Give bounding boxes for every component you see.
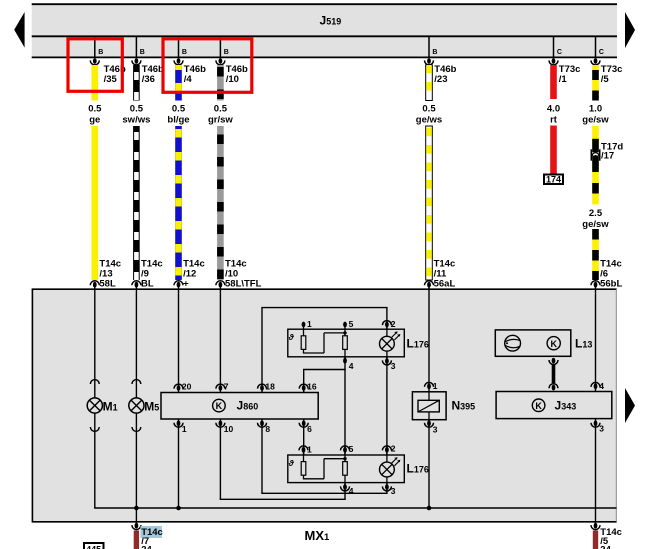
svg-text:8: 8 xyxy=(265,424,270,434)
svg-text:K: K xyxy=(216,401,223,411)
svg-text:24: 24 xyxy=(600,545,611,549)
svg-text:10: 10 xyxy=(224,424,234,434)
wire to J860 pin 20 xyxy=(178,285,180,393)
svg-text:58L: 58L xyxy=(99,279,116,290)
svg-text:4: 4 xyxy=(349,361,354,371)
svg-text:ϑ: ϑ xyxy=(288,458,295,468)
svg-text:3: 3 xyxy=(599,423,604,433)
J860 pin 7 xyxy=(216,382,229,392)
L176 upper pin 2 xyxy=(382,319,395,329)
wire L176 upper pin 3 to L176 lower pin 2 xyxy=(386,357,388,455)
svg-text:B: B xyxy=(140,49,145,56)
wire label 2.5 ge/sw xyxy=(582,208,609,230)
svg-text:bl/ge: bl/ge xyxy=(167,115,189,126)
connector T46b/10 xyxy=(216,58,248,85)
wire label 1.0 ge/sw xyxy=(582,104,609,126)
connector T14c/13 58L xyxy=(90,259,121,290)
wire to J343 pin 4 xyxy=(595,285,597,392)
svg-text:20: 20 xyxy=(182,382,192,392)
L176 upper pin 3 xyxy=(382,358,395,371)
svg-text:L176: L176 xyxy=(407,337,429,351)
svg-text:16: 16 xyxy=(307,382,317,392)
svg-text:7: 7 xyxy=(224,382,229,392)
svg-text:24: 24 xyxy=(141,545,152,549)
J860 pin 16 xyxy=(299,382,317,392)
svg-text:J860: J860 xyxy=(237,399,259,413)
lamp M1 xyxy=(87,380,117,432)
svg-text:gr/sw: gr/sw xyxy=(208,115,233,126)
wire J860 pin 1 to ground bus xyxy=(178,419,180,508)
wire J860 pin 6 to L176 lower pin 1 xyxy=(303,419,305,455)
wire M5 branch to exit T14c/7 xyxy=(135,285,137,524)
svg-text:0.5: 0.5 xyxy=(172,104,186,115)
headlight unit box MX1 xyxy=(32,289,617,522)
markup red rectangle 1 xyxy=(68,39,122,92)
wire 0.5 gr/sw from J519 T46b/10 to MX1 T14c/10 xyxy=(217,65,224,280)
svg-text:/4: /4 xyxy=(184,74,193,85)
svg-text:L176: L176 xyxy=(407,462,429,476)
wire J343 pin 3 to exit T14c/5 xyxy=(595,419,597,524)
connector T73c/1 xyxy=(549,58,580,85)
junction dot N395 bus xyxy=(427,506,432,511)
control unit J343 xyxy=(496,392,612,419)
connector T46b/4 xyxy=(174,58,206,85)
svg-text:2: 2 xyxy=(391,443,396,453)
markup red rectangle 2 xyxy=(163,39,252,93)
wire label 4.0 rt xyxy=(547,104,560,126)
N395 pin 1 xyxy=(425,381,438,391)
J519 pin stub B at x=136.4 xyxy=(136,36,144,57)
connector T14c/10 58L\TFL xyxy=(216,259,262,290)
svg-text:4.0: 4.0 xyxy=(547,104,560,115)
svg-text:58L\TFL: 58L\TFL xyxy=(225,279,262,290)
wire to J860 pin 7 xyxy=(219,285,221,393)
J860 pin 18 xyxy=(258,382,276,392)
svg-text:0.5: 0.5 xyxy=(130,104,144,115)
wire 0.5 bl/ge from J519 T46b/4 to MX1 T14c/12 xyxy=(175,65,182,280)
svg-text:sw/ws: sw/ws xyxy=(122,115,150,126)
plus connection 174 box xyxy=(544,174,563,184)
svg-text:K: K xyxy=(535,401,542,411)
svg-text:C: C xyxy=(599,49,604,56)
wire L176 upper pin 4 to L176 lower pin 5 xyxy=(344,357,346,455)
svg-text:/23: /23 xyxy=(434,74,447,85)
svg-text:ge/sw: ge/sw xyxy=(582,115,609,126)
L176 lower pin 4 xyxy=(341,484,354,496)
exit connector T14c/7 (highlighted) xyxy=(132,523,163,549)
svg-text:1: 1 xyxy=(307,444,312,454)
svg-text:18: 18 xyxy=(265,382,275,392)
svg-text:ge/ws: ge/ws xyxy=(416,115,442,126)
connector T46b/23 xyxy=(425,58,457,85)
wire 1.0/2.5 ge/sw from J519 T73c/5 through T17d/17 to MX1 T14c/6 xyxy=(592,65,599,280)
connector T46b/35 xyxy=(90,58,126,85)
L176 upper pin 4 xyxy=(343,358,354,371)
svg-text:4: 4 xyxy=(349,486,354,496)
svg-text:1: 1 xyxy=(182,424,187,434)
wire J860 pin 8 to L176 lower pin 3 xyxy=(261,419,387,493)
daytime running light L176 upper xyxy=(288,325,429,361)
svg-text:56aL: 56aL xyxy=(434,279,456,290)
svg-text:0.5: 0.5 xyxy=(214,104,228,115)
connector T46b/36 xyxy=(132,58,164,85)
svg-text:B: B xyxy=(224,49,229,56)
wire 0.5 ge from J519 T46b/35 to MX1 T14c/13 xyxy=(92,65,99,280)
J343 pin 4 xyxy=(591,381,604,391)
svg-text:174: 174 xyxy=(546,174,561,184)
L176 upper pin 5 xyxy=(343,319,354,329)
lamp M5 xyxy=(129,380,159,432)
svg-text:C: C xyxy=(557,49,562,56)
svg-text:/35: /35 xyxy=(104,74,118,85)
svg-text:3: 3 xyxy=(433,424,438,434)
svg-text:1: 1 xyxy=(433,381,438,391)
svg-text:1: 1 xyxy=(307,319,312,329)
ground bus inside MX1 xyxy=(94,507,616,509)
connector T14c/11 56aL xyxy=(425,259,456,290)
svg-text:56bL: 56bL xyxy=(600,279,622,290)
L176 lower pin 2 xyxy=(382,443,395,453)
wire label 0.5 ge xyxy=(88,104,102,126)
J519 pin stub C at x=595.5 xyxy=(596,36,604,57)
wire M1 branch xyxy=(94,285,96,508)
J860 pin 6 xyxy=(299,420,312,433)
J519 pin stub B at x=178.5 xyxy=(179,36,187,57)
svg-text:J519: J519 xyxy=(320,14,342,28)
gas discharge lamp L13 xyxy=(495,330,592,356)
svg-text:M5: M5 xyxy=(144,400,159,414)
J860 pin 10 xyxy=(216,420,234,433)
svg-text:ge/sw: ge/sw xyxy=(582,219,609,230)
J519 pin stub B at x=429.0 xyxy=(429,36,437,57)
relay N395 xyxy=(412,392,475,420)
J860 pin 1 xyxy=(174,420,187,433)
svg-text:B: B xyxy=(182,49,187,56)
control module J519 band xyxy=(32,4,617,57)
svg-text:/36: /36 xyxy=(142,74,155,85)
control unit J860 xyxy=(161,393,318,420)
L176 lower pin 5 xyxy=(341,444,354,454)
svg-text:5: 5 xyxy=(349,444,354,454)
wire J860 pin 10 to L176 lower pin 4 xyxy=(220,419,346,499)
wire label 0.5 bl/ge xyxy=(167,104,189,126)
inline connector T17d/17 xyxy=(591,141,623,161)
arrow right top (continuation) xyxy=(625,12,635,48)
svg-text:B: B xyxy=(98,49,103,56)
svg-text:2: 2 xyxy=(391,319,396,329)
wire 0.5 ge/ws from J519 T46b/23 to MX1 T14c/11 xyxy=(426,65,433,280)
N395 pin 3 xyxy=(425,420,438,434)
wire 4.0 rt from J519 T73c/1 to connection 174 xyxy=(550,65,557,175)
svg-text:3: 3 xyxy=(391,486,396,496)
svg-text:N395: N395 xyxy=(452,399,476,413)
wire label 0.5 gr/sw xyxy=(208,104,233,126)
connector T14c/12 + xyxy=(174,259,205,290)
L176 lower pin 3 xyxy=(382,484,395,496)
J343 pin 3 xyxy=(591,420,604,433)
svg-text:0.5: 0.5 xyxy=(88,104,102,115)
arrow left (continuation) xyxy=(14,12,24,48)
svg-text:L13: L13 xyxy=(575,336,592,350)
svg-text:+: + xyxy=(183,279,189,290)
svg-text:/17: /17 xyxy=(601,151,614,162)
L176 lower pin 1 xyxy=(299,444,312,454)
connector T14c/9 BL xyxy=(132,259,163,290)
wire 0.5 sw/ws from J519 T46b/36 to MX1 T14c/9 xyxy=(133,65,140,280)
svg-text:/10: /10 xyxy=(226,74,239,85)
exit connector T14c/5 xyxy=(591,523,622,549)
svg-text:6: 6 xyxy=(307,424,312,434)
junction dot M5 bus xyxy=(134,506,139,511)
svg-text:K: K xyxy=(550,339,557,349)
connector T73c/5 xyxy=(591,58,622,85)
J860 pin 20 xyxy=(174,382,192,392)
svg-text:5: 5 xyxy=(349,319,354,329)
svg-text:BL: BL xyxy=(141,279,154,290)
svg-text:/1: /1 xyxy=(559,74,568,85)
wire J860 pin 16 to junction xyxy=(303,370,346,393)
svg-text:1.0: 1.0 xyxy=(589,104,602,115)
svg-text:2.5: 2.5 xyxy=(589,208,603,219)
link L13 to J343 xyxy=(549,358,558,391)
svg-text:4: 4 xyxy=(599,381,604,391)
svg-text:M1: M1 xyxy=(103,400,118,414)
svg-text:ge: ge xyxy=(89,115,100,126)
svg-text:/5: /5 xyxy=(601,74,610,85)
junction dot J860 pin1 bus xyxy=(176,506,181,511)
wire N395 pin 3 to bus xyxy=(428,420,430,508)
J519 pin stub B at x=94.8 xyxy=(95,36,103,57)
svg-text:B: B xyxy=(432,49,437,56)
ground connection 445 box xyxy=(84,543,104,549)
J519 pin stub B at x=220.4 xyxy=(220,36,228,57)
svg-text:rt: rt xyxy=(550,115,558,126)
arrow right middle (continuation) xyxy=(625,388,635,423)
svg-text:3: 3 xyxy=(391,361,396,371)
L176 upper pin 1 xyxy=(302,319,312,329)
wire J860 pin 18 to L176 upper pin 2 xyxy=(261,308,387,393)
svg-text:445: 445 xyxy=(86,545,101,549)
svg-text:ϑ: ϑ xyxy=(288,332,295,342)
J860 pin 8 xyxy=(258,420,271,433)
connector T14c/6 56bL xyxy=(591,259,622,290)
svg-text:0.5: 0.5 xyxy=(422,104,436,115)
wire to N395 pin 1 xyxy=(428,285,430,395)
wire label 0.5 ge/ws xyxy=(416,104,442,126)
svg-text:J343: J343 xyxy=(555,399,577,413)
daytime running light L176 lower xyxy=(288,450,429,487)
J519 pin stub C at x=553.5 xyxy=(554,36,562,57)
wire label 0.5 sw/ws xyxy=(122,104,150,126)
